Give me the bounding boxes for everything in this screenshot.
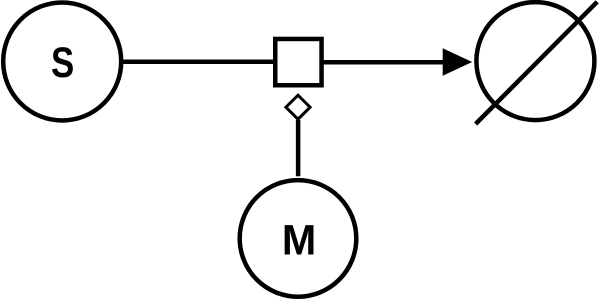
- wire from square junction to arrowhead: [322, 60, 444, 65]
- diamond connector below square: [286, 95, 310, 119]
- wire from diamond connector down to node M: [296, 120, 301, 176]
- svg-text:M: M: [282, 216, 316, 264]
- label M: [282, 216, 316, 264]
- crossed circle (sink): [476, 2, 594, 120]
- node M (circle): [240, 180, 357, 297]
- slash through sink circle: [476, 2, 598, 124]
- svg-text:S: S: [51, 40, 74, 87]
- label S: [51, 40, 74, 87]
- wire from node S to square junction: [120, 60, 276, 65]
- square junction block: [275, 39, 321, 85]
- node S (circle): [3, 2, 121, 120]
- arrowhead (filled triangle): [443, 48, 473, 76]
